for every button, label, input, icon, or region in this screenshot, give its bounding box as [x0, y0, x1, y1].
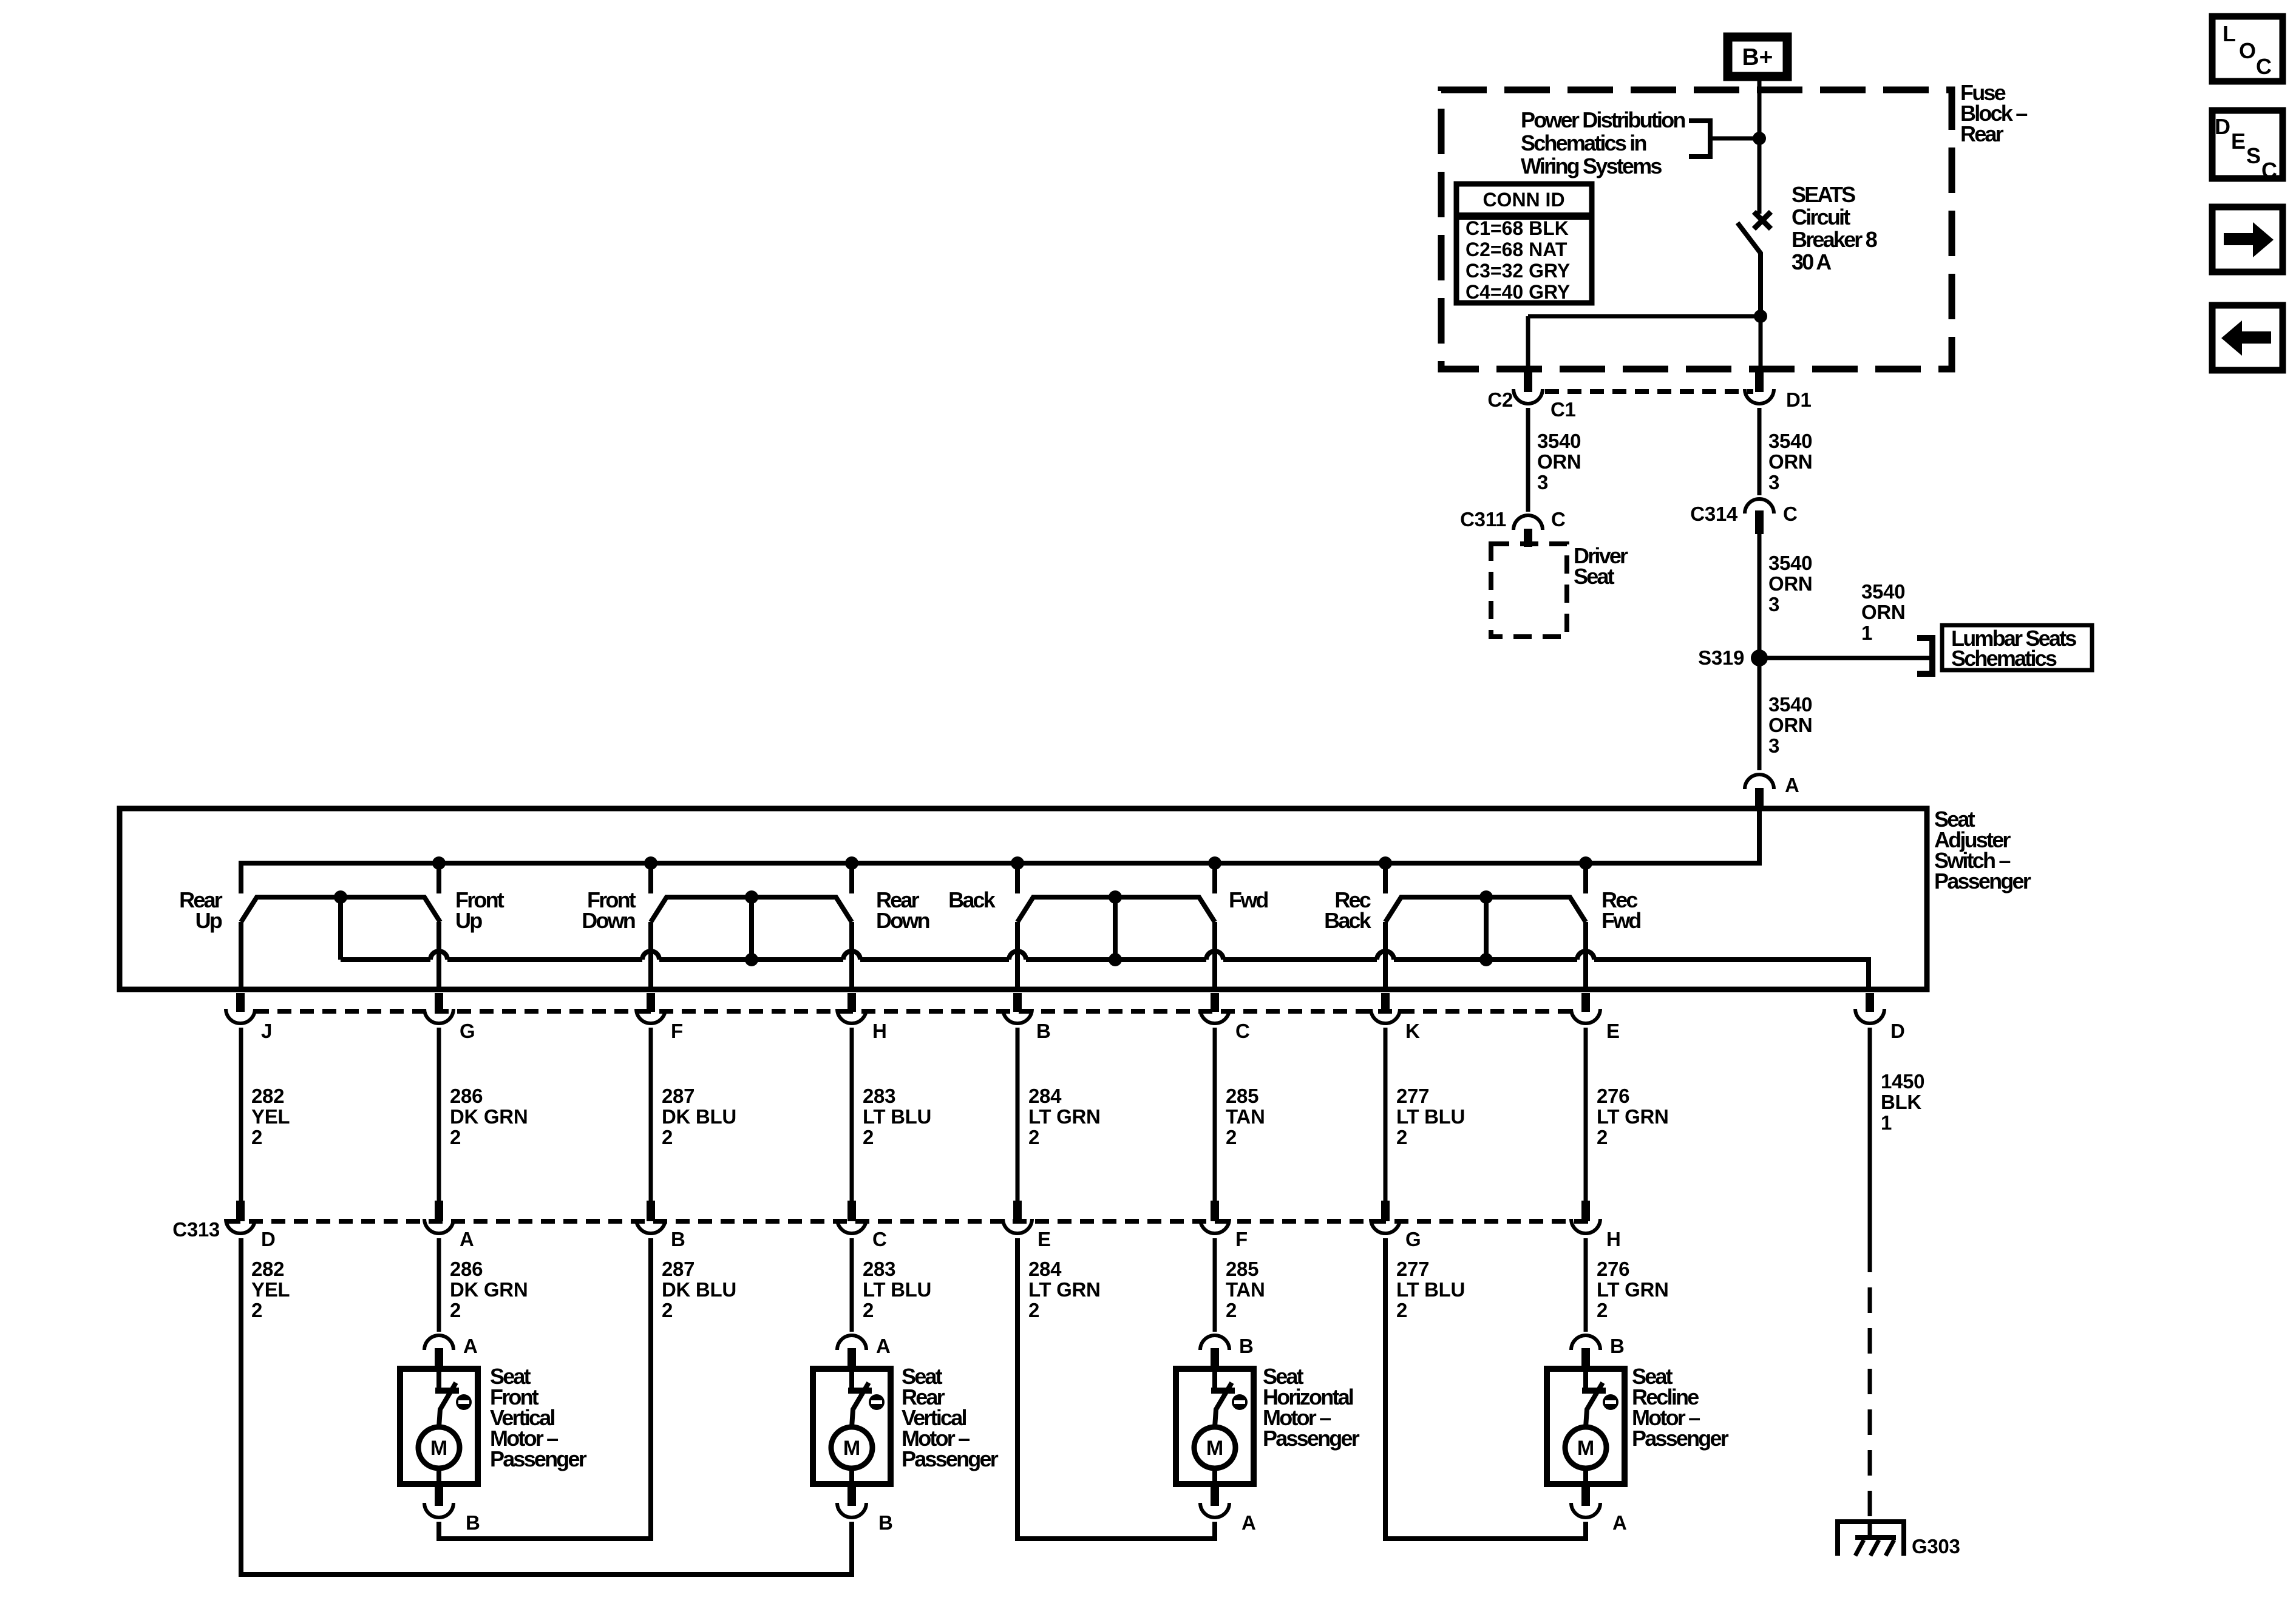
svg-text:285: 285	[1226, 1085, 1258, 1107]
svg-text:Fwd: Fwd	[1601, 908, 1640, 933]
svg-text:Schematics in: Schematics in	[1521, 131, 1646, 155]
svg-text:LT BLU: LT BLU	[1396, 1278, 1465, 1301]
svg-text:G: G	[1405, 1228, 1421, 1250]
svg-text:2: 2	[662, 1126, 673, 1148]
svg-text:D1: D1	[1786, 388, 1812, 411]
svg-text:LT GRN: LT GRN	[1597, 1278, 1669, 1301]
svg-text:H: H	[1606, 1228, 1621, 1250]
svg-text:3: 3	[1768, 471, 1779, 493]
svg-text:DK BLU: DK BLU	[662, 1278, 736, 1301]
svg-text:F: F	[671, 1020, 683, 1042]
svg-text:L: L	[2223, 21, 2235, 46]
svg-text:277: 277	[1396, 1258, 1429, 1280]
svg-text:C: C	[2256, 54, 2272, 79]
svg-text:J: J	[261, 1020, 272, 1042]
svg-text:287: 287	[662, 1085, 695, 1107]
svg-text:YEL: YEL	[251, 1278, 290, 1301]
svg-text:284: 284	[1028, 1085, 1062, 1107]
svg-text:A: A	[463, 1335, 478, 1357]
svg-text:C314: C314	[1690, 503, 1738, 525]
svg-text:Back: Back	[1324, 908, 1372, 933]
svg-text:C3=32 GRY: C3=32 GRY	[1466, 260, 1570, 282]
svg-text:K: K	[1405, 1020, 1420, 1042]
svg-text:277: 277	[1396, 1085, 1429, 1107]
svg-text:A: A	[876, 1335, 891, 1357]
svg-text:TAN: TAN	[1226, 1105, 1265, 1128]
svg-text:2: 2	[1396, 1299, 1407, 1321]
svg-text:2: 2	[1396, 1126, 1407, 1148]
svg-text:S319: S319	[1698, 646, 1744, 669]
svg-text:2: 2	[1597, 1126, 1608, 1148]
svg-text:LT GRN: LT GRN	[1597, 1105, 1669, 1128]
svg-text:YEL: YEL	[251, 1105, 290, 1128]
svg-text:2: 2	[863, 1299, 874, 1321]
svg-text:CONN ID: CONN ID	[1483, 189, 1564, 211]
svg-text:2: 2	[1226, 1299, 1237, 1321]
svg-text:C2=68 NAT: C2=68 NAT	[1466, 239, 1567, 260]
svg-text:C1: C1	[1550, 398, 1576, 421]
svg-text:276: 276	[1597, 1258, 1629, 1280]
svg-text:2: 2	[251, 1299, 262, 1321]
svg-text:1: 1	[1881, 1111, 1892, 1134]
svg-text:2: 2	[450, 1126, 461, 1148]
svg-text:B: B	[878, 1511, 893, 1534]
svg-text:A: A	[1785, 774, 1799, 796]
svg-text:E: E	[2231, 129, 2245, 154]
svg-text:LT GRN: LT GRN	[1028, 1278, 1101, 1301]
svg-text:M: M	[843, 1437, 860, 1460]
svg-text:B: B	[1036, 1020, 1051, 1042]
svg-text:3540: 3540	[1861, 580, 1905, 603]
svg-text:2: 2	[450, 1299, 461, 1321]
svg-text:C313: C313	[172, 1218, 220, 1241]
svg-text:DK BLU: DK BLU	[662, 1105, 736, 1128]
svg-text:286: 286	[450, 1085, 483, 1107]
svg-text:C4=40 GRY: C4=40 GRY	[1466, 281, 1570, 303]
svg-text:ORN: ORN	[1768, 572, 1812, 595]
svg-text:F: F	[1235, 1228, 1248, 1250]
svg-text:B: B	[1610, 1335, 1625, 1357]
svg-text:C1=68 BLK: C1=68 BLK	[1466, 217, 1569, 239]
svg-text:B+: B+	[1742, 44, 1773, 70]
svg-text:286: 286	[450, 1258, 483, 1280]
svg-text:ORN: ORN	[1861, 601, 1905, 623]
svg-text:G: G	[460, 1020, 475, 1042]
svg-text:3: 3	[1537, 471, 1548, 493]
svg-text:B: B	[671, 1228, 685, 1250]
svg-text:LT BLU: LT BLU	[1396, 1105, 1465, 1128]
svg-text:ORN: ORN	[1768, 714, 1812, 736]
svg-text:Down: Down	[582, 908, 635, 933]
svg-text:C: C	[1551, 508, 1566, 531]
svg-text:283: 283	[863, 1085, 895, 1107]
svg-text:M: M	[430, 1437, 447, 1460]
svg-text:DK GRN: DK GRN	[450, 1278, 528, 1301]
svg-text:Up: Up	[195, 908, 222, 933]
svg-text:Up: Up	[455, 908, 482, 933]
svg-text:Circuit: Circuit	[1792, 205, 1850, 229]
svg-text:M: M	[1577, 1437, 1594, 1460]
svg-text:2: 2	[662, 1299, 673, 1321]
svg-text:D: D	[2215, 114, 2230, 139]
svg-text:E: E	[1606, 1020, 1620, 1042]
svg-text:284: 284	[1028, 1258, 1062, 1280]
svg-text:285: 285	[1226, 1258, 1258, 1280]
svg-text:282: 282	[251, 1258, 284, 1280]
svg-text:C: C	[1783, 503, 1798, 525]
svg-text:SEATS: SEATS	[1792, 182, 1855, 207]
svg-text:LT GRN: LT GRN	[1028, 1105, 1101, 1128]
svg-text:D: D	[261, 1228, 276, 1250]
svg-text:3: 3	[1768, 593, 1779, 615]
svg-text:M: M	[1206, 1437, 1223, 1460]
svg-text:C2: C2	[1487, 388, 1513, 411]
svg-text:3540: 3540	[1537, 430, 1581, 452]
svg-text:2: 2	[1028, 1299, 1039, 1321]
svg-text:A: A	[1612, 1511, 1627, 1534]
svg-text:Wiring Systems: Wiring Systems	[1521, 154, 1662, 178]
svg-text:Fwd: Fwd	[1229, 887, 1268, 912]
svg-text:BLK: BLK	[1881, 1091, 1921, 1113]
svg-text:Rear: Rear	[1960, 121, 2004, 146]
svg-text:283: 283	[863, 1258, 895, 1280]
svg-text:2: 2	[1597, 1299, 1608, 1321]
svg-text:LT BLU: LT BLU	[863, 1278, 931, 1301]
svg-text:Passenger: Passenger	[902, 1446, 999, 1471]
svg-text:276: 276	[1597, 1085, 1629, 1107]
svg-text:3540: 3540	[1768, 552, 1812, 574]
svg-text:3540: 3540	[1768, 430, 1812, 452]
svg-text:Back: Back	[948, 887, 996, 912]
svg-text:287: 287	[662, 1258, 695, 1280]
svg-text:Passenger: Passenger	[1263, 1426, 1360, 1451]
svg-text:D: D	[1890, 1020, 1905, 1042]
svg-text:Passenger: Passenger	[1632, 1426, 1729, 1451]
svg-text:ORN: ORN	[1537, 450, 1581, 473]
svg-text:282: 282	[251, 1085, 284, 1107]
svg-text:O: O	[2239, 38, 2255, 63]
svg-text:1450: 1450	[1881, 1070, 1924, 1093]
svg-text:2: 2	[1226, 1126, 1237, 1148]
svg-text:3: 3	[1768, 734, 1779, 757]
svg-text:S: S	[2246, 143, 2260, 168]
svg-text:ORN: ORN	[1768, 450, 1812, 473]
svg-text:Passenger: Passenger	[490, 1446, 587, 1471]
svg-text:Power Distribution: Power Distribution	[1521, 107, 1685, 132]
svg-text:Down: Down	[876, 908, 929, 933]
svg-text:DK GRN: DK GRN	[450, 1105, 528, 1128]
svg-text:B: B	[1239, 1335, 1254, 1357]
svg-text:Breaker 8: Breaker 8	[1792, 227, 1877, 252]
svg-text:LT BLU: LT BLU	[863, 1105, 931, 1128]
svg-text:Schematics: Schematics	[1951, 646, 2057, 671]
svg-text:A: A	[1241, 1511, 1256, 1534]
svg-text:TAN: TAN	[1226, 1278, 1265, 1301]
svg-text:C: C	[872, 1228, 887, 1250]
svg-text:Passenger: Passenger	[1934, 869, 2031, 893]
svg-text:30 A: 30 A	[1792, 249, 1832, 274]
svg-text:B: B	[466, 1511, 480, 1534]
svg-text:2: 2	[863, 1126, 874, 1148]
svg-text:2: 2	[1028, 1126, 1039, 1148]
svg-text:H: H	[872, 1020, 887, 1042]
svg-text:C: C	[1235, 1020, 1250, 1042]
svg-text:1: 1	[1861, 622, 1872, 644]
svg-text:C311: C311	[1460, 508, 1506, 531]
svg-text:A: A	[460, 1228, 474, 1250]
svg-text:E: E	[1038, 1228, 1051, 1250]
svg-text:G303: G303	[1912, 1535, 1960, 1558]
svg-text:Seat: Seat	[1574, 564, 1615, 589]
svg-text:3540: 3540	[1768, 693, 1812, 716]
svg-text:C: C	[2261, 158, 2277, 183]
svg-text:2: 2	[251, 1126, 262, 1148]
